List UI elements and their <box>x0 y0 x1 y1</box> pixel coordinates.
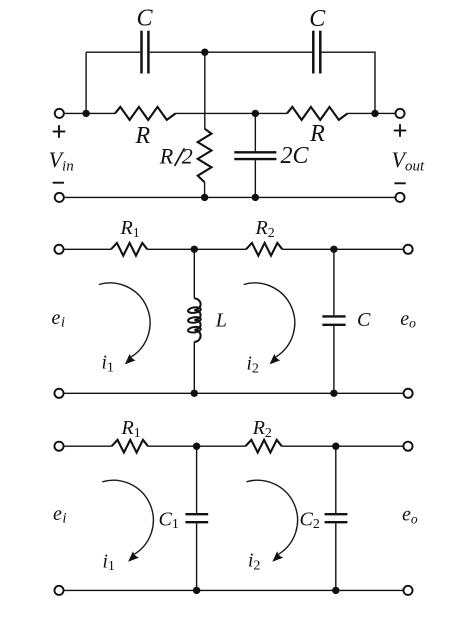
wire R1 to node C1 <box>148 445 197 447</box>
wire node C to 2C capacitor <box>254 113 256 151</box>
svg-text:2: 2 <box>182 144 193 169</box>
terminal eo bottom (open circle) <box>404 389 413 398</box>
loop current i2 arrow (middle circuit) <box>244 283 295 364</box>
wire top rail to left capacitor <box>86 51 140 53</box>
capacitor C plates (middle circuit) <box>322 316 345 324</box>
resistor R/2 zigzag <box>198 129 212 183</box>
svg-text:eo: eo <box>400 308 416 331</box>
terminal eo bottom (bottom circuit) <box>403 586 412 595</box>
svg-text:R2: R2 <box>252 417 272 441</box>
wire ei top to R1 <box>64 248 111 250</box>
wire middle rail crossover to node C <box>176 112 287 114</box>
svg-text:R1: R1 <box>120 217 140 241</box>
node C top junction dot (middle circuit) <box>330 246 337 253</box>
terminal Vout - (open circle) <box>395 193 404 202</box>
wire left capacitor to node B <box>150 51 205 53</box>
capacitor 2C plates <box>234 152 276 159</box>
capacitor C1 plates <box>185 514 208 522</box>
wire ei top to R1 (bottom circuit) <box>64 445 111 447</box>
svg-text:C2: C2 <box>300 508 320 532</box>
wire capacitor C2 top lead <box>335 446 337 513</box>
wire output node to Vout+ <box>375 112 395 114</box>
capacitor C right plates <box>313 31 320 74</box>
terminal Vin - (open circle) <box>55 193 64 202</box>
wire R2 to node C <box>282 248 334 250</box>
wire Vin+ to node A <box>65 112 87 114</box>
loop current i1 arrow (bottom circuit) <box>102 480 153 561</box>
wire inductor top lead <box>193 249 195 298</box>
resistor R right zigzag <box>287 107 348 120</box>
svg-text:R: R <box>134 123 150 149</box>
wire R1 to node L <box>147 248 194 250</box>
svg-text:ei: ei <box>53 503 67 527</box>
capacitor C2 plates <box>325 514 348 522</box>
wire node A up to top rail <box>85 52 87 113</box>
node L top junction dot <box>191 246 198 253</box>
node L bottom junction dot <box>191 390 198 397</box>
bottom rail wire <box>65 196 395 198</box>
terminal Vout + (open circle) <box>395 109 404 118</box>
svg-text:i2: i2 <box>248 551 260 574</box>
wire node B down through crossover <box>204 52 206 129</box>
label minus (output) <box>394 182 405 184</box>
resistor R2 zigzag (bottom circuit) <box>245 440 281 453</box>
node A junction dot <box>82 110 89 117</box>
wire capacitor C1 bottom lead <box>196 523 198 590</box>
terminal ei top (open circle) <box>54 245 63 254</box>
svg-text:R: R <box>309 121 325 147</box>
terminal ei bottom (bottom circuit) <box>54 586 63 595</box>
wire capacitor C bottom lead (middle circuit) <box>333 326 335 393</box>
loop current i2 arrow (bottom circuit) <box>247 480 298 561</box>
resistor R left zigzag <box>115 107 176 120</box>
svg-text:R2: R2 <box>255 217 275 241</box>
svg-text:C: C <box>309 6 326 32</box>
svg-text:i1: i1 <box>103 551 115 574</box>
bottom rail wire (middle circuit) <box>64 392 403 394</box>
capacitor C left plates <box>142 31 149 74</box>
svg-text:C: C <box>136 6 153 32</box>
resistor R1 zigzag (middle circuit) <box>111 243 147 256</box>
svg-text:Vin: Vin <box>49 147 74 174</box>
wire R2 to node C2 <box>282 445 336 447</box>
inductor L coil <box>188 298 201 342</box>
svg-text:i2: i2 <box>247 354 259 377</box>
wire inductor bottom lead <box>193 342 195 393</box>
wire capacitor C1 top lead <box>196 446 198 513</box>
wire node C2 to eo top (bottom circuit) <box>336 445 404 447</box>
wire middle rail node A to resistor <box>86 112 115 114</box>
node C junction dot (2C branch) <box>252 110 259 117</box>
wire node C1 to R2 <box>197 445 246 447</box>
terminal Vin + (open circle) <box>55 109 64 118</box>
wire node B to right capacitor <box>205 51 312 53</box>
svg-text:i1: i1 <box>102 353 114 376</box>
node B junction dot (top center) <box>201 49 208 56</box>
node C bottom junction dot (middle circuit) <box>330 390 337 397</box>
svg-text:eo: eo <box>402 504 418 527</box>
wire capacitor C top lead (middle circuit) <box>333 249 335 315</box>
wire node L to R2 <box>194 248 246 250</box>
wire right capacitor to top-right corner <box>322 52 375 113</box>
terminal eo top (open circle) <box>404 245 413 254</box>
wire node C to eo top terminal <box>334 248 404 250</box>
svg-text:R1: R1 <box>121 417 141 441</box>
terminal eo top (bottom circuit) <box>403 442 412 451</box>
wire capacitor C2 bottom lead <box>335 523 337 590</box>
wire 2C capacitor to bottom rail <box>254 160 256 197</box>
node C1 top junction dot <box>193 443 200 450</box>
label + (input) <box>53 125 66 138</box>
svg-text:C: C <box>357 309 371 331</box>
resistor R2 zigzag (middle circuit) <box>246 243 282 256</box>
bottom rail wire (bottom circuit) <box>64 589 403 591</box>
svg-text:ei: ei <box>52 307 66 331</box>
svg-text:2C: 2C <box>280 143 309 169</box>
label + (output) <box>394 124 407 137</box>
loop current i1 arrow (middle circuit) <box>99 283 150 364</box>
svg-text:R: R <box>159 144 174 169</box>
wire R/2 to bottom rail <box>204 182 206 197</box>
label minus (input) <box>53 182 64 184</box>
junction dot 2C bottom <box>252 194 259 201</box>
node C2 top junction dot <box>332 443 339 450</box>
node C1 bottom junction dot <box>193 587 200 594</box>
svg-text:Vout: Vout <box>392 147 425 175</box>
junction dot R/2 bottom <box>201 194 208 201</box>
terminal ei bottom (open circle) <box>54 389 63 398</box>
resistor R1 zigzag (bottom circuit) <box>112 440 148 453</box>
node C2 bottom junction dot <box>332 587 339 594</box>
svg-text:C1: C1 <box>159 508 179 532</box>
svg-text:L: L <box>215 309 227 331</box>
output node junction dot <box>371 110 378 117</box>
wire right resistor to output node <box>348 112 375 114</box>
label R/2 <box>159 144 193 169</box>
terminal ei top (bottom circuit) <box>54 442 63 451</box>
